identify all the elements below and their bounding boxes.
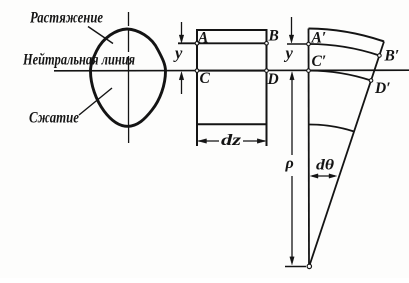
svg-text:C′: C′ (312, 53, 327, 70)
svg-text:y: y (173, 44, 183, 63)
apex node (center of curvature) (307, 264, 311, 268)
svg-text:Растяжение: Растяжение (29, 10, 103, 27)
node B (265, 42, 269, 46)
vertical centerline of cross-section (128, 12, 130, 143)
rectangle bottom edge (197, 123, 267, 125)
left y dimension: down arrow (179, 22, 184, 43)
leader line for Сжатие (79, 88, 112, 115)
svg-text:Нейтральная линия: Нейтральная линия (22, 52, 135, 69)
line CD (neutral layer inside element) (197, 70, 267, 72)
svg-text:A′: A′ (311, 30, 327, 47)
arc A'B' (309, 44, 380, 56)
svg-text:B′: B′ (384, 48, 400, 65)
node D (265, 69, 269, 73)
node A (195, 42, 199, 46)
wedge left edge (radius line) (308, 29, 311, 265)
svg-text:A: A (197, 30, 208, 47)
node C' (307, 69, 311, 73)
svg-text:C: C (200, 70, 211, 87)
arc C'D' (309, 71, 372, 81)
node A' (307, 42, 311, 46)
rho dimension line with up/down arrows (290, 72, 294, 265)
node B' (378, 54, 382, 58)
svg-text:dz: dz (221, 132, 242, 149)
left y dimension: up arrow (179, 72, 184, 94)
dz dimension line with outward arrows (198, 139, 266, 144)
node D' (369, 79, 373, 83)
tick at A' level between figures (287, 43, 309, 45)
neutral axis line (long horizontal) (54, 69, 409, 72)
tick at apex level (285, 266, 306, 268)
wedge right edge (radius line through B' D') (310, 42, 384, 265)
svg-text:D′: D′ (374, 80, 391, 97)
right y dimension: down arrow (289, 17, 294, 43)
element rectangle (dz slice) (197, 30, 267, 146)
deformed top edge arc (309, 29, 385, 42)
svg-text:D: D (267, 71, 279, 88)
deformed bottom edge arc (309, 124, 354, 131)
cross-section outline (egg shape) (91, 29, 166, 126)
node C (195, 69, 199, 73)
svg-text:B: B (268, 28, 279, 45)
svg-text:dθ: dθ (316, 158, 334, 174)
svg-text:ρ: ρ (285, 155, 294, 172)
leader line for Растяжение (88, 27, 113, 44)
d-theta angle dimension double arrow (310, 174, 336, 178)
line AB (178, 42, 267, 44)
svg-text:Сжатие: Сжатие (29, 110, 79, 127)
svg-text:y: y (284, 44, 294, 63)
